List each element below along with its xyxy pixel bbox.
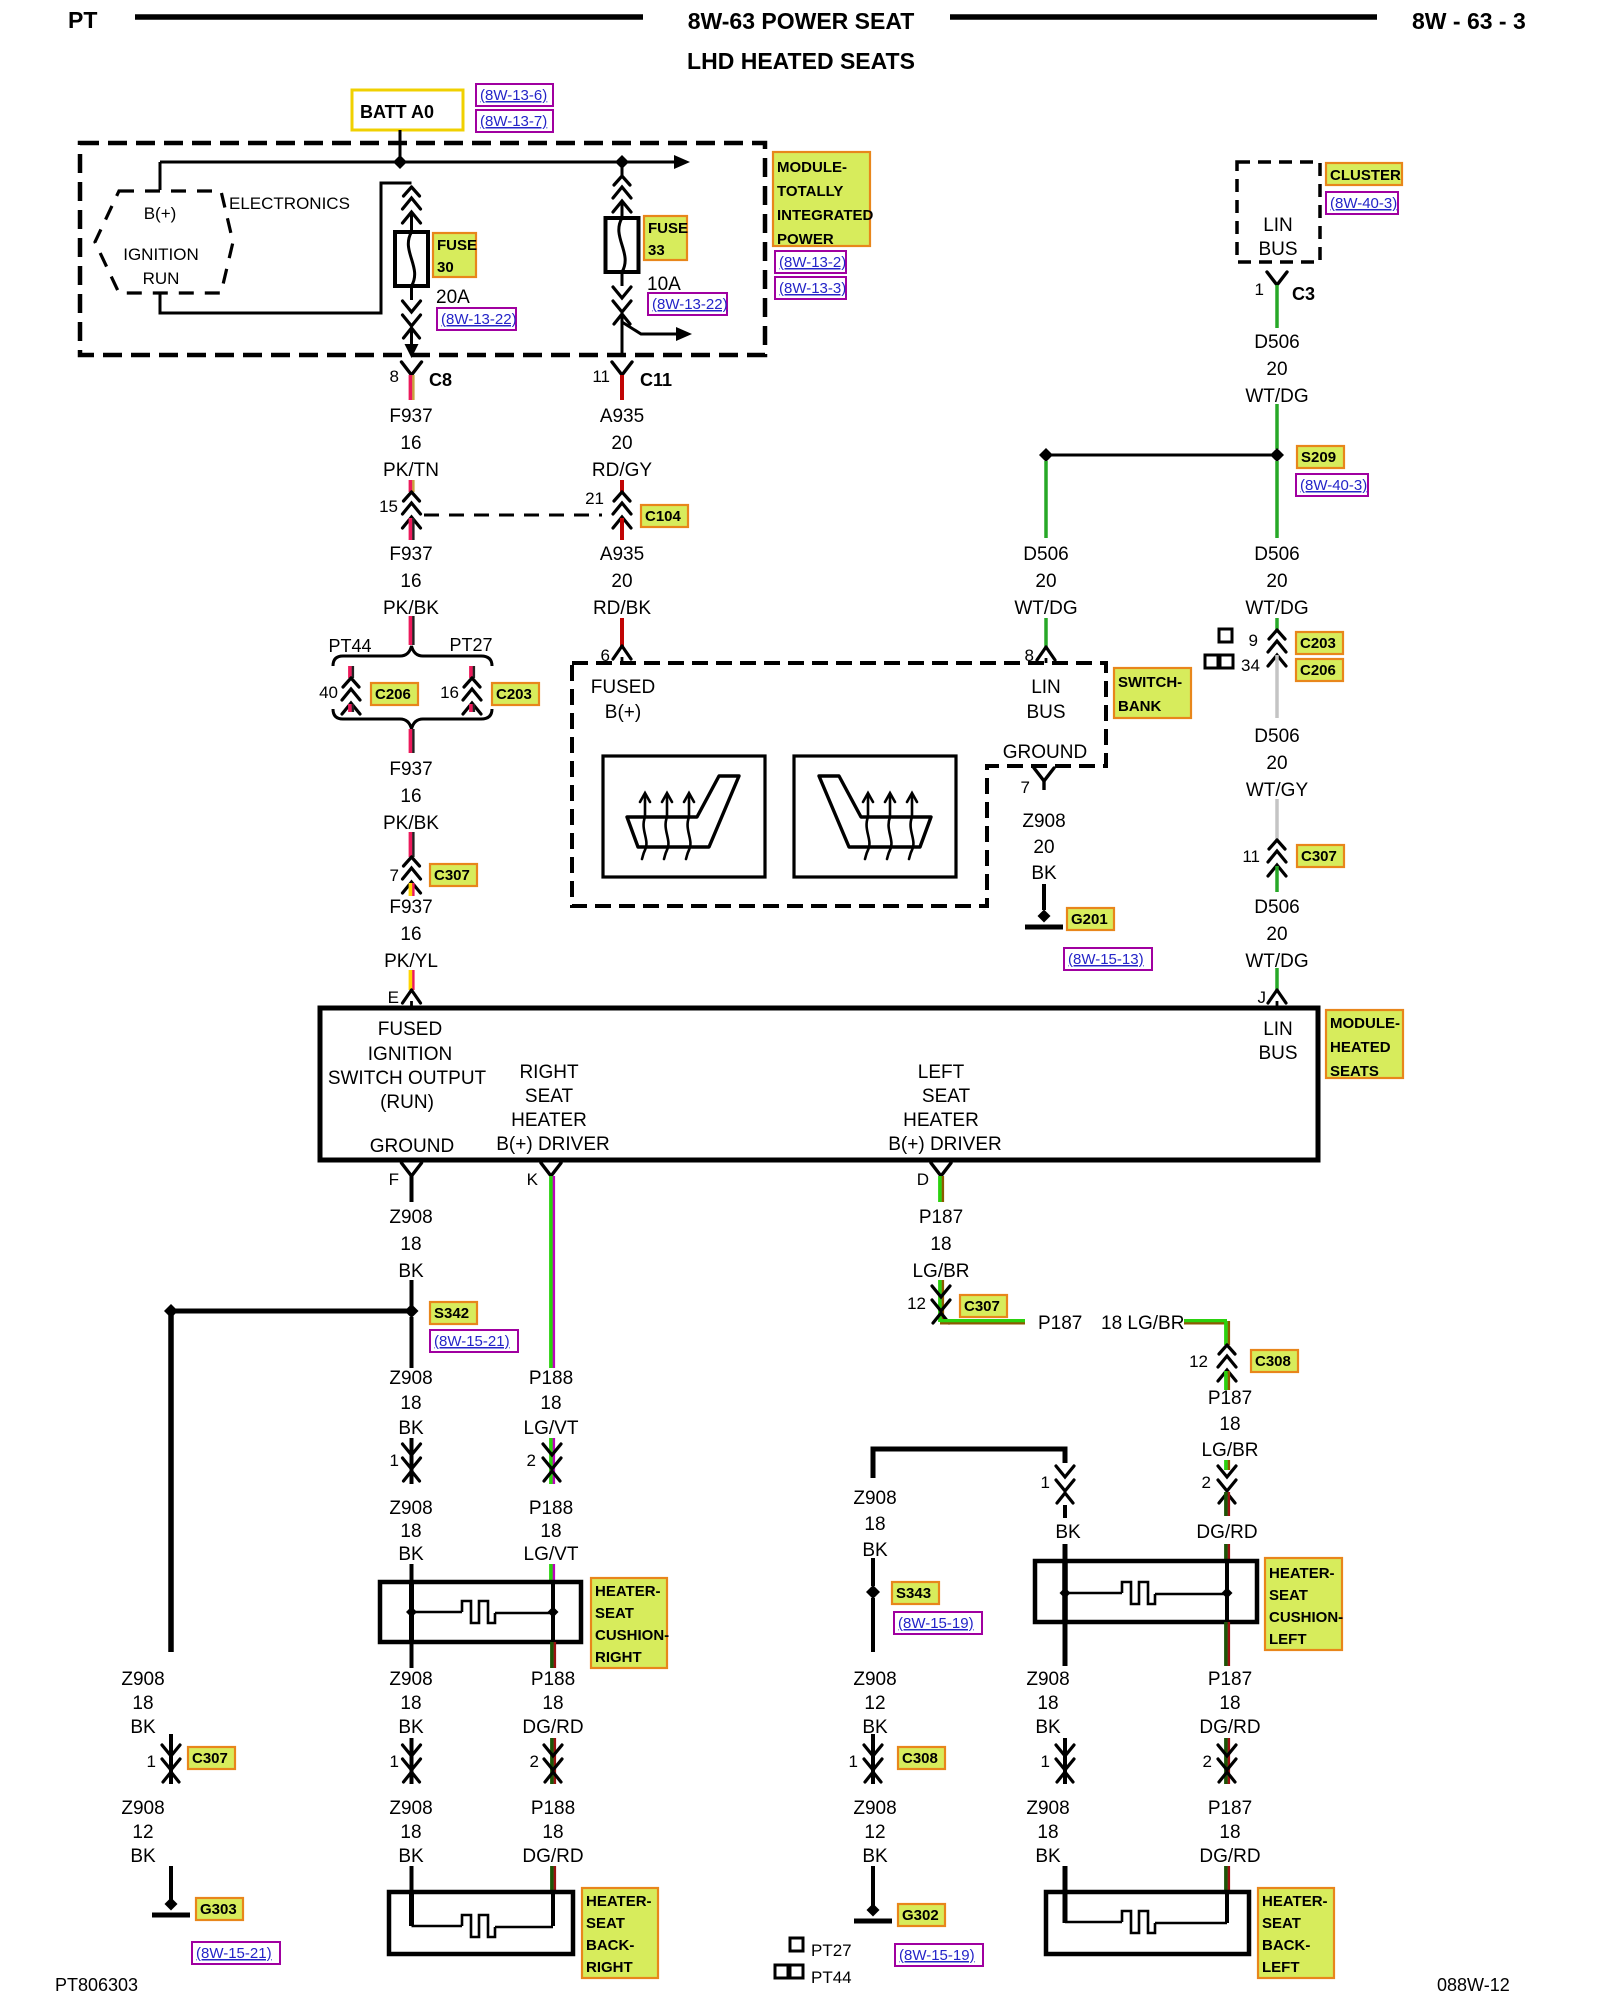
svg-text:A935: A935 <box>600 406 644 427</box>
svg-text:PK/BK: PK/BK <box>383 813 439 834</box>
svg-text:Z908: Z908 <box>853 1669 896 1690</box>
svg-text:PT27: PT27 <box>811 1941 852 1960</box>
svg-text:RD/GY: RD/GY <box>592 460 653 481</box>
label S342 <box>430 1302 477 1324</box>
svg-text:(8W-13-2): (8W-13-2) <box>779 254 846 271</box>
label C203 <box>492 683 539 705</box>
connector pin 1 (back-left) <box>1063 1738 1067 1784</box>
heater-seat back-right outline <box>389 1892 573 1954</box>
link 8W-13-6 <box>476 84 553 106</box>
wire stubs into heater-seat back-left <box>1063 1866 1068 1894</box>
svg-text:BK: BK <box>398 1261 424 1282</box>
svg-text:DG/RD: DG/RD <box>522 1717 583 1738</box>
label HEATER-SEAT CUSHION-LEFT <box>1265 1558 1342 1650</box>
ground G302 <box>867 1904 880 1917</box>
svg-text:1: 1 <box>390 1752 399 1771</box>
wire stub into heater-seat cushion-right <box>410 1564 414 1584</box>
node: B+ bus junction at fuse 33 <box>615 155 629 169</box>
label C307 (pin 12) <box>960 1295 1007 1317</box>
svg-text:C3: C3 <box>1292 284 1315 304</box>
svg-text:B(+) DRIVER: B(+) DRIVER <box>888 1134 1002 1155</box>
svg-text:PT44: PT44 <box>328 636 371 656</box>
ground G303 <box>165 1898 178 1911</box>
svg-text:33: 33 <box>648 242 665 259</box>
wire: BATT A0 down to B+ bus <box>399 130 402 162</box>
svg-text:PK/YL: PK/YL <box>384 951 438 972</box>
svg-text:P188: P188 <box>529 1368 573 1389</box>
label CLUSTER <box>1326 163 1402 185</box>
svg-text:P187: P187 <box>1208 1669 1252 1690</box>
svg-text:12: 12 <box>132 1822 153 1843</box>
title rule right <box>950 14 1377 20</box>
svg-text:K: K <box>527 1170 539 1189</box>
label C206 <box>371 683 418 705</box>
svg-text:20: 20 <box>1266 924 1287 945</box>
svg-text:B(+) DRIVER: B(+) DRIVER <box>496 1134 610 1155</box>
svg-text:(8W-15-19): (8W-15-19) <box>899 1947 975 1964</box>
wire F937 16 PK/BK below pin 15 <box>409 518 413 540</box>
svg-text:FUSED: FUSED <box>591 677 655 698</box>
svg-text:LIN: LIN <box>1263 1019 1293 1040</box>
svg-text:16: 16 <box>400 924 421 945</box>
harness split brace lower <box>333 709 492 729</box>
svg-text:P188: P188 <box>531 1798 575 1819</box>
wire D506 WT/DG to switch-bank pin 8 <box>1044 461 1048 538</box>
svg-text:(8W-13-3): (8W-13-3) <box>779 280 846 297</box>
title rule left <box>135 14 643 20</box>
splice S343 <box>871 1558 875 1586</box>
svg-text:BK: BK <box>398 1418 424 1439</box>
svg-text:D506: D506 <box>1023 544 1068 565</box>
heated seat icon box right-seat <box>603 756 765 877</box>
svg-text:20: 20 <box>611 433 632 454</box>
svg-text:P188: P188 <box>531 1669 575 1690</box>
connector pin 15 chevrons <box>404 492 420 501</box>
label HEATER-SEAT BACK-RIGHT <box>582 1888 658 1978</box>
svg-text:SEAT: SEAT <box>922 1086 971 1107</box>
svg-text:C11: C11 <box>640 370 672 390</box>
svg-text:F937: F937 <box>389 897 432 918</box>
svg-text:D506: D506 <box>1254 897 1299 918</box>
svg-text:1: 1 <box>147 1752 156 1771</box>
svg-text:16: 16 <box>400 433 421 454</box>
svg-text:(8W-40-3): (8W-40-3) <box>1300 477 1367 494</box>
wire A935 20 RD/GY stub <box>620 375 624 400</box>
svg-text:BK: BK <box>862 1846 888 1867</box>
wire stubs into heater-seat back-right <box>410 1866 414 1894</box>
svg-text:(8W-13-6): (8W-13-6) <box>480 87 547 104</box>
svg-text:(8W-13-22): (8W-13-22) <box>441 311 517 328</box>
link 8W-13-3 <box>775 277 846 299</box>
svg-text:DG/RD: DG/RD <box>522 1846 583 1867</box>
svg-text:HEATED: HEATED <box>1330 1039 1391 1056</box>
svg-text:BK: BK <box>1035 1717 1061 1738</box>
svg-text:(8W-15-21): (8W-15-21) <box>196 1945 272 1962</box>
label HEATER-SEAT CUSHION-RIGHT <box>591 1578 667 1668</box>
svg-text:Z908: Z908 <box>1022 811 1065 832</box>
svg-text:12: 12 <box>864 1822 885 1843</box>
svg-text:18: 18 <box>1037 1693 1058 1714</box>
svg-text:D506: D506 <box>1254 332 1299 353</box>
svg-text:15: 15 <box>379 497 398 516</box>
wire D506 20 WT/DG from cluster <box>1275 285 1279 328</box>
wire stub into cushion-left <box>1224 1544 1228 1563</box>
svg-text:18: 18 <box>400 1234 421 1255</box>
svg-text:Z908: Z908 <box>1026 1669 1069 1690</box>
svg-text:BANK: BANK <box>1118 698 1161 715</box>
svg-text:PT44: PT44 <box>811 1968 852 1987</box>
label MODULE-HEATED SEATS <box>1326 1010 1403 1078</box>
svg-text:BK: BK <box>1031 863 1057 884</box>
wire P188 DG/RD below cushion-right <box>550 1642 554 1668</box>
svg-text:Z908: Z908 <box>121 1798 164 1819</box>
svg-text:18: 18 <box>540 1521 561 1542</box>
splice S342 <box>405 1304 419 1318</box>
svg-text:Z908: Z908 <box>389 1207 432 1228</box>
svg-text:GROUND: GROUND <box>370 1136 454 1157</box>
wire below fuse 30 <box>410 286 413 300</box>
svg-text:18: 18 <box>132 1693 153 1714</box>
connector pin 2 (back-left) <box>1224 1738 1228 1784</box>
svg-text:PK/TN: PK/TN <box>383 460 439 481</box>
wire F937 16 PK/TN stub <box>409 375 413 400</box>
label HEATER-SEAT BACK-LEFT <box>1258 1888 1334 1978</box>
svg-text:C308: C308 <box>1255 1353 1291 1370</box>
svg-text:F: F <box>389 1170 399 1189</box>
svg-text:MODULE-: MODULE- <box>1330 1015 1400 1032</box>
svg-text:GROUND: GROUND <box>1003 742 1087 763</box>
svg-text:P188: P188 <box>529 1498 573 1519</box>
svg-text:20A: 20A <box>436 287 470 308</box>
link 8W-40-3 (S209) <box>1296 474 1368 496</box>
label S343 <box>892 1582 939 1604</box>
svg-text:SEAT: SEAT <box>595 1605 634 1622</box>
connector chevrons below fuse 30 <box>403 301 421 312</box>
svg-text:LEFT: LEFT <box>1269 1631 1307 1648</box>
module-totally integrated power dashed outline <box>80 143 765 355</box>
svg-text:18: 18 <box>540 1393 561 1414</box>
svg-text:(RUN): (RUN) <box>380 1092 434 1113</box>
svg-text:20: 20 <box>1035 571 1056 592</box>
svg-text:BACK-: BACK- <box>1262 1937 1310 1954</box>
svg-text:G201: G201 <box>1071 911 1108 928</box>
connector pin 1 (cushion-left) <box>1056 1466 1074 1477</box>
svg-text:PT806303: PT806303 <box>55 1975 138 1995</box>
svg-text:DG/RD: DG/RD <box>1196 1522 1257 1543</box>
svg-text:C307: C307 <box>1301 848 1337 865</box>
svg-text:20: 20 <box>611 571 632 592</box>
svg-text:BK: BK <box>130 1717 156 1738</box>
svg-text:SEAT: SEAT <box>1262 1915 1301 1932</box>
svg-text:P187: P187 <box>1208 1388 1252 1409</box>
connector pin 2 (back-right) <box>550 1738 554 1784</box>
wire into fuse 30 <box>410 212 413 232</box>
wire Z908 below cushion-right <box>410 1642 414 1668</box>
svg-text:BUS: BUS <box>1258 1043 1297 1064</box>
svg-text:HEATER-: HEATER- <box>586 1893 652 1910</box>
svg-text:BK: BK <box>398 1544 424 1565</box>
wire stub above C307 pin 7 <box>409 832 413 857</box>
ground G201 <box>1038 910 1051 923</box>
svg-text:30: 30 <box>437 259 454 276</box>
legend terminal squares PT44 <box>775 1965 788 1978</box>
label FUSE 30 <box>433 233 476 277</box>
svg-text:HEATER-: HEATER- <box>1262 1893 1328 1910</box>
connector C307 pin 11 chevrons <box>1269 840 1285 849</box>
connector C307 pin 1 (left ground) <box>169 1734 173 1784</box>
heater-seat back-left outline <box>1046 1892 1249 1954</box>
svg-text:POWER: POWER <box>777 231 834 248</box>
connector pin 2 (right-cushion) <box>549 1438 553 1484</box>
svg-text:LEFT: LEFT <box>918 1062 965 1083</box>
label S209 <box>1297 446 1344 468</box>
svg-text:B(+): B(+) <box>144 204 177 223</box>
svg-text:BK: BK <box>1055 1522 1081 1543</box>
label C203 (right) <box>1296 632 1343 654</box>
svg-text:F937: F937 <box>389 406 432 427</box>
svg-text:16: 16 <box>440 683 459 702</box>
svg-text:1: 1 <box>1041 1473 1050 1492</box>
svg-text:8W-63 POWER SEAT: 8W-63 POWER SEAT <box>688 8 915 34</box>
svg-text:J: J <box>1258 988 1267 1007</box>
wire stub to ground G302 <box>871 1866 875 1906</box>
svg-text:18: 18 <box>1219 1693 1240 1714</box>
svg-text:FUSE: FUSE <box>648 220 688 237</box>
wire: bus down-leg to ignition switch hex <box>159 162 162 190</box>
label C308 (left ground) <box>898 1747 945 1769</box>
svg-text:18: 18 <box>542 1822 563 1843</box>
branch wire with arrow inside TIPM <box>622 322 676 334</box>
svg-text:PT: PT <box>68 7 97 33</box>
element wires inside cushion-left <box>1062 1563 1068 1620</box>
svg-text:088W-12: 088W-12 <box>1437 1975 1510 1995</box>
svg-text:RD/BK: RD/BK <box>593 598 651 619</box>
label C307 (left ground) <box>188 1747 235 1769</box>
connector C203/C206 pin 9 chevrons <box>1269 630 1285 639</box>
heated seat icon (seat facing left) <box>819 776 931 847</box>
svg-text:1: 1 <box>1255 280 1264 299</box>
svg-text:(8W-15-21): (8W-15-21) <box>434 1333 510 1350</box>
wire F937 16 PK/BK below brace <box>409 729 413 753</box>
wire stub to switch-bank pin 6 <box>620 618 624 646</box>
svg-text:BK: BK <box>1035 1846 1061 1867</box>
svg-text:SWITCH OUTPUT: SWITCH OUTPUT <box>328 1068 487 1089</box>
svg-text:B(+): B(+) <box>605 702 641 723</box>
wire A935 RD/BK below C104 <box>620 518 624 540</box>
svg-text:1: 1 <box>849 1752 858 1771</box>
svg-text:WT/DG: WT/DG <box>1245 386 1308 407</box>
wire: ignition run output loop to fuse 30 <box>160 183 412 313</box>
heated seat icon (seat facing right) <box>627 776 739 847</box>
wire P187 DG/RD below cushion-left <box>1224 1622 1228 1666</box>
svg-text:S342: S342 <box>434 1305 469 1322</box>
svg-text:2: 2 <box>530 1752 539 1771</box>
svg-text:LG/VT: LG/VT <box>524 1544 579 1565</box>
svg-text:1: 1 <box>1041 1752 1050 1771</box>
svg-text:LIN: LIN <box>1263 215 1293 236</box>
element wires inside back-right <box>409 1894 414 1926</box>
svg-text:BK: BK <box>862 1717 888 1738</box>
svg-text:FUSE: FUSE <box>437 237 477 254</box>
svg-text:(8W-40-3): (8W-40-3) <box>1330 195 1397 212</box>
svg-text:SWITCH-: SWITCH- <box>1118 674 1182 691</box>
svg-text:HEATER: HEATER <box>903 1110 979 1131</box>
svg-text:F937: F937 <box>389 759 432 780</box>
connector C104 pin 21 chevrons <box>614 492 630 501</box>
svg-text:40: 40 <box>319 683 338 702</box>
svg-text:8: 8 <box>390 367 399 386</box>
svg-text:BATT A0: BATT A0 <box>360 102 434 122</box>
connector chevrons above fuse 33 <box>614 176 630 185</box>
label G201 <box>1067 908 1114 930</box>
svg-text:HEATER-: HEATER- <box>1269 1565 1335 1582</box>
label MODULE-TOTALLY INTEGRATED POWER <box>773 152 870 246</box>
svg-text:2: 2 <box>1202 1473 1211 1492</box>
fuse 33 symbol <box>606 218 639 272</box>
label G302 <box>898 1904 945 1926</box>
svg-text:7: 7 <box>1021 778 1030 797</box>
link 8W-15-21 (S342) <box>430 1330 518 1352</box>
svg-text:C308: C308 <box>902 1750 938 1767</box>
svg-text:Z908: Z908 <box>853 1488 896 1509</box>
svg-text:CUSHION-: CUSHION- <box>1269 1609 1343 1626</box>
connector pin 2 (cushion-left) <box>1224 1460 1228 1470</box>
legend terminal square PT27 <box>790 1938 803 1951</box>
label G303 <box>196 1898 243 1920</box>
svg-text:D506: D506 <box>1254 544 1299 565</box>
link 8W-13-22 (fuse 30) <box>437 308 516 330</box>
wire: B+ bus across TIPM with arrow <box>160 161 674 164</box>
wire D506 20 WT/GY <box>1275 655 1279 718</box>
node: B+ bus junction at fuse 30 feed <box>393 155 407 169</box>
svg-text:(8W-15-19): (8W-15-19) <box>898 1615 974 1632</box>
fuse 30 symbol <box>395 232 428 286</box>
svg-text:Z908: Z908 <box>1026 1798 1069 1819</box>
link 8W-15-21 (G303) <box>192 1942 280 1964</box>
svg-text:2: 2 <box>1203 1752 1212 1771</box>
svg-text:RIGHT: RIGHT <box>586 1959 633 1976</box>
svg-text:18: 18 <box>400 1521 421 1542</box>
svg-text:12: 12 <box>1189 1352 1208 1371</box>
svg-text:SEAT: SEAT <box>525 1086 574 1107</box>
svg-text:PT27: PT27 <box>449 635 492 655</box>
wire into fuse 33 <box>621 201 624 218</box>
ignition switch function outline (dashed hexagon) <box>95 191 233 293</box>
link 8W-40-3 (cluster) <box>1326 192 1398 214</box>
svg-text:8W - 63 - 3: 8W - 63 - 3 <box>1412 8 1526 34</box>
svg-text:BK: BK <box>862 1540 888 1561</box>
svg-text:BACK-: BACK- <box>586 1937 634 1954</box>
svg-text:18 LG/BR: 18 LG/BR <box>1101 1313 1184 1334</box>
wire stub to ground G303 <box>169 1866 173 1900</box>
label C307 (right) <box>1297 845 1344 867</box>
svg-text:34: 34 <box>1241 656 1260 675</box>
module-heated seats outline <box>320 1008 1318 1160</box>
svg-text:C104: C104 <box>645 508 682 525</box>
wire P188 18 LG/VT below pin K <box>549 1176 553 1368</box>
wire P187 18 LG/BR below pin D <box>938 1176 942 1202</box>
svg-text:2: 2 <box>527 1451 536 1470</box>
label SWITCH-BANK <box>1114 668 1191 718</box>
svg-text:DG/RD: DG/RD <box>1199 1717 1260 1738</box>
svg-text:11: 11 <box>592 367 610 386</box>
svg-text:18: 18 <box>400 1822 421 1843</box>
svg-text:C203: C203 <box>1300 635 1336 652</box>
svg-text:C8: C8 <box>429 370 452 390</box>
wire Z908 trunk with elbow to cushion-left pin 1 <box>873 1449 1065 1478</box>
svg-text:HEATER-: HEATER- <box>595 1583 661 1600</box>
svg-text:18: 18 <box>1037 1822 1058 1843</box>
connector C307 pin 12 chevrons <box>938 1280 942 1322</box>
svg-text:18: 18 <box>1219 1414 1240 1435</box>
svg-text:18: 18 <box>1219 1822 1240 1843</box>
svg-text:C307: C307 <box>192 1750 228 1767</box>
connector C203 pin 16 <box>469 666 473 678</box>
svg-text:F937: F937 <box>389 544 432 565</box>
cluster dashed outline <box>1237 162 1320 262</box>
wire: bus down to fuse 33 <box>621 162 624 178</box>
svg-text:8: 8 <box>1025 646 1034 665</box>
svg-text:9: 9 <box>1249 631 1258 650</box>
heated seat icon box left-seat <box>794 756 956 877</box>
wire Z908 below cushion-left <box>1063 1622 1068 1666</box>
svg-text:WT/DG: WT/DG <box>1014 598 1077 619</box>
svg-text:A935: A935 <box>600 544 644 565</box>
svg-text:S343: S343 <box>896 1585 931 1602</box>
svg-text:RUN: RUN <box>143 269 180 288</box>
wire stub above C104 row left <box>409 480 413 492</box>
svg-text:HEATER: HEATER <box>511 1110 587 1131</box>
svg-text:WT/GY: WT/GY <box>1246 780 1309 801</box>
wire P187 elbow to C308 <box>940 1319 1025 1323</box>
label FUSE 33 <box>644 216 687 260</box>
svg-text:16: 16 <box>400 571 421 592</box>
svg-text:Z908: Z908 <box>389 1498 432 1519</box>
wire stub to ground G201 <box>1042 884 1046 910</box>
svg-text:P187: P187 <box>1208 1798 1252 1819</box>
heater-seat cushion-left outline <box>1035 1561 1257 1622</box>
svg-text:INTEGRATED: INTEGRATED <box>777 207 874 224</box>
svg-text:BUS: BUS <box>1026 702 1065 723</box>
svg-text:G303: G303 <box>200 1901 237 1918</box>
svg-text:(8W-13-22): (8W-13-22) <box>652 296 728 313</box>
svg-text:20: 20 <box>1266 571 1287 592</box>
svg-text:20: 20 <box>1266 753 1287 774</box>
wire Z908 18 BK below pin F <box>410 1176 414 1202</box>
wire stub to module pin E <box>409 970 413 990</box>
connector chevrons below fuse 33 <box>613 287 631 298</box>
link 8W-15-19 (G302) <box>895 1944 983 1966</box>
svg-text:ELECTRONICS: ELECTRONICS <box>229 194 350 213</box>
wire stub into heater-seat cushion-right <box>549 1564 553 1584</box>
label C104 <box>641 505 688 527</box>
splice S209 <box>1046 454 1277 457</box>
svg-text:11: 11 <box>1242 847 1260 866</box>
label C307 <box>430 864 477 886</box>
wire D506 WT/DG below S209 <box>1275 461 1279 538</box>
connector pin 1 (C307 right-cushion) <box>410 1438 414 1484</box>
label C206 (right) <box>1296 659 1343 681</box>
svg-text:Z908: Z908 <box>853 1798 896 1819</box>
connector C308 pin 1 (left ground) <box>871 1734 875 1784</box>
connector C206 pin 40 <box>348 666 352 678</box>
svg-text:BK: BK <box>398 1846 424 1867</box>
svg-text:SEAT: SEAT <box>1269 1587 1308 1604</box>
switch-bank dashed outline <box>572 663 1106 906</box>
svg-text:(8W-13-7): (8W-13-7) <box>480 113 547 130</box>
svg-text:C203: C203 <box>496 686 532 703</box>
svg-text:BK: BK <box>130 1846 156 1867</box>
